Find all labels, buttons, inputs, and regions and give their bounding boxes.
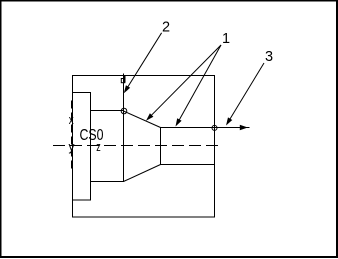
dashed centerline axis: [53, 145, 221, 147]
dashed vertical X axis line: [71, 101, 73, 170]
leader line 3 with arrowhead: [229, 63, 264, 121]
node circle marker at shaft corner: [212, 125, 217, 130]
leader line 1b to shaft surface with arrowhead: [179, 45, 222, 121]
svg-text:z: z: [96, 140, 101, 154]
svg-text:2: 2: [162, 20, 170, 36]
vertical edge line through probe position: [123, 74, 125, 182]
node circle marker on probe axis: [121, 108, 127, 114]
svg-text:1: 1: [222, 31, 230, 47]
cone upper edge: [124, 111, 161, 128]
leader line 2 with arrowhead: [126, 33, 161, 90]
svg-text:y: y: [69, 140, 76, 154]
svg-text:x: x: [69, 113, 75, 127]
small probe square marker: [121, 79, 125, 83]
leader line 1a to cone surface with arrowhead: [150, 45, 222, 117]
cone lower edge: [124, 165, 161, 182]
middle cylinder section rectangle: [91, 111, 124, 182]
axis arrow line with right arrowhead: [215, 127, 250, 129]
right shaft rectangle: [161, 128, 215, 165]
svg-text:3: 3: [265, 49, 273, 65]
specimen outer housing rectangle: [73, 76, 215, 218]
left flange rectangle: [73, 93, 91, 201]
